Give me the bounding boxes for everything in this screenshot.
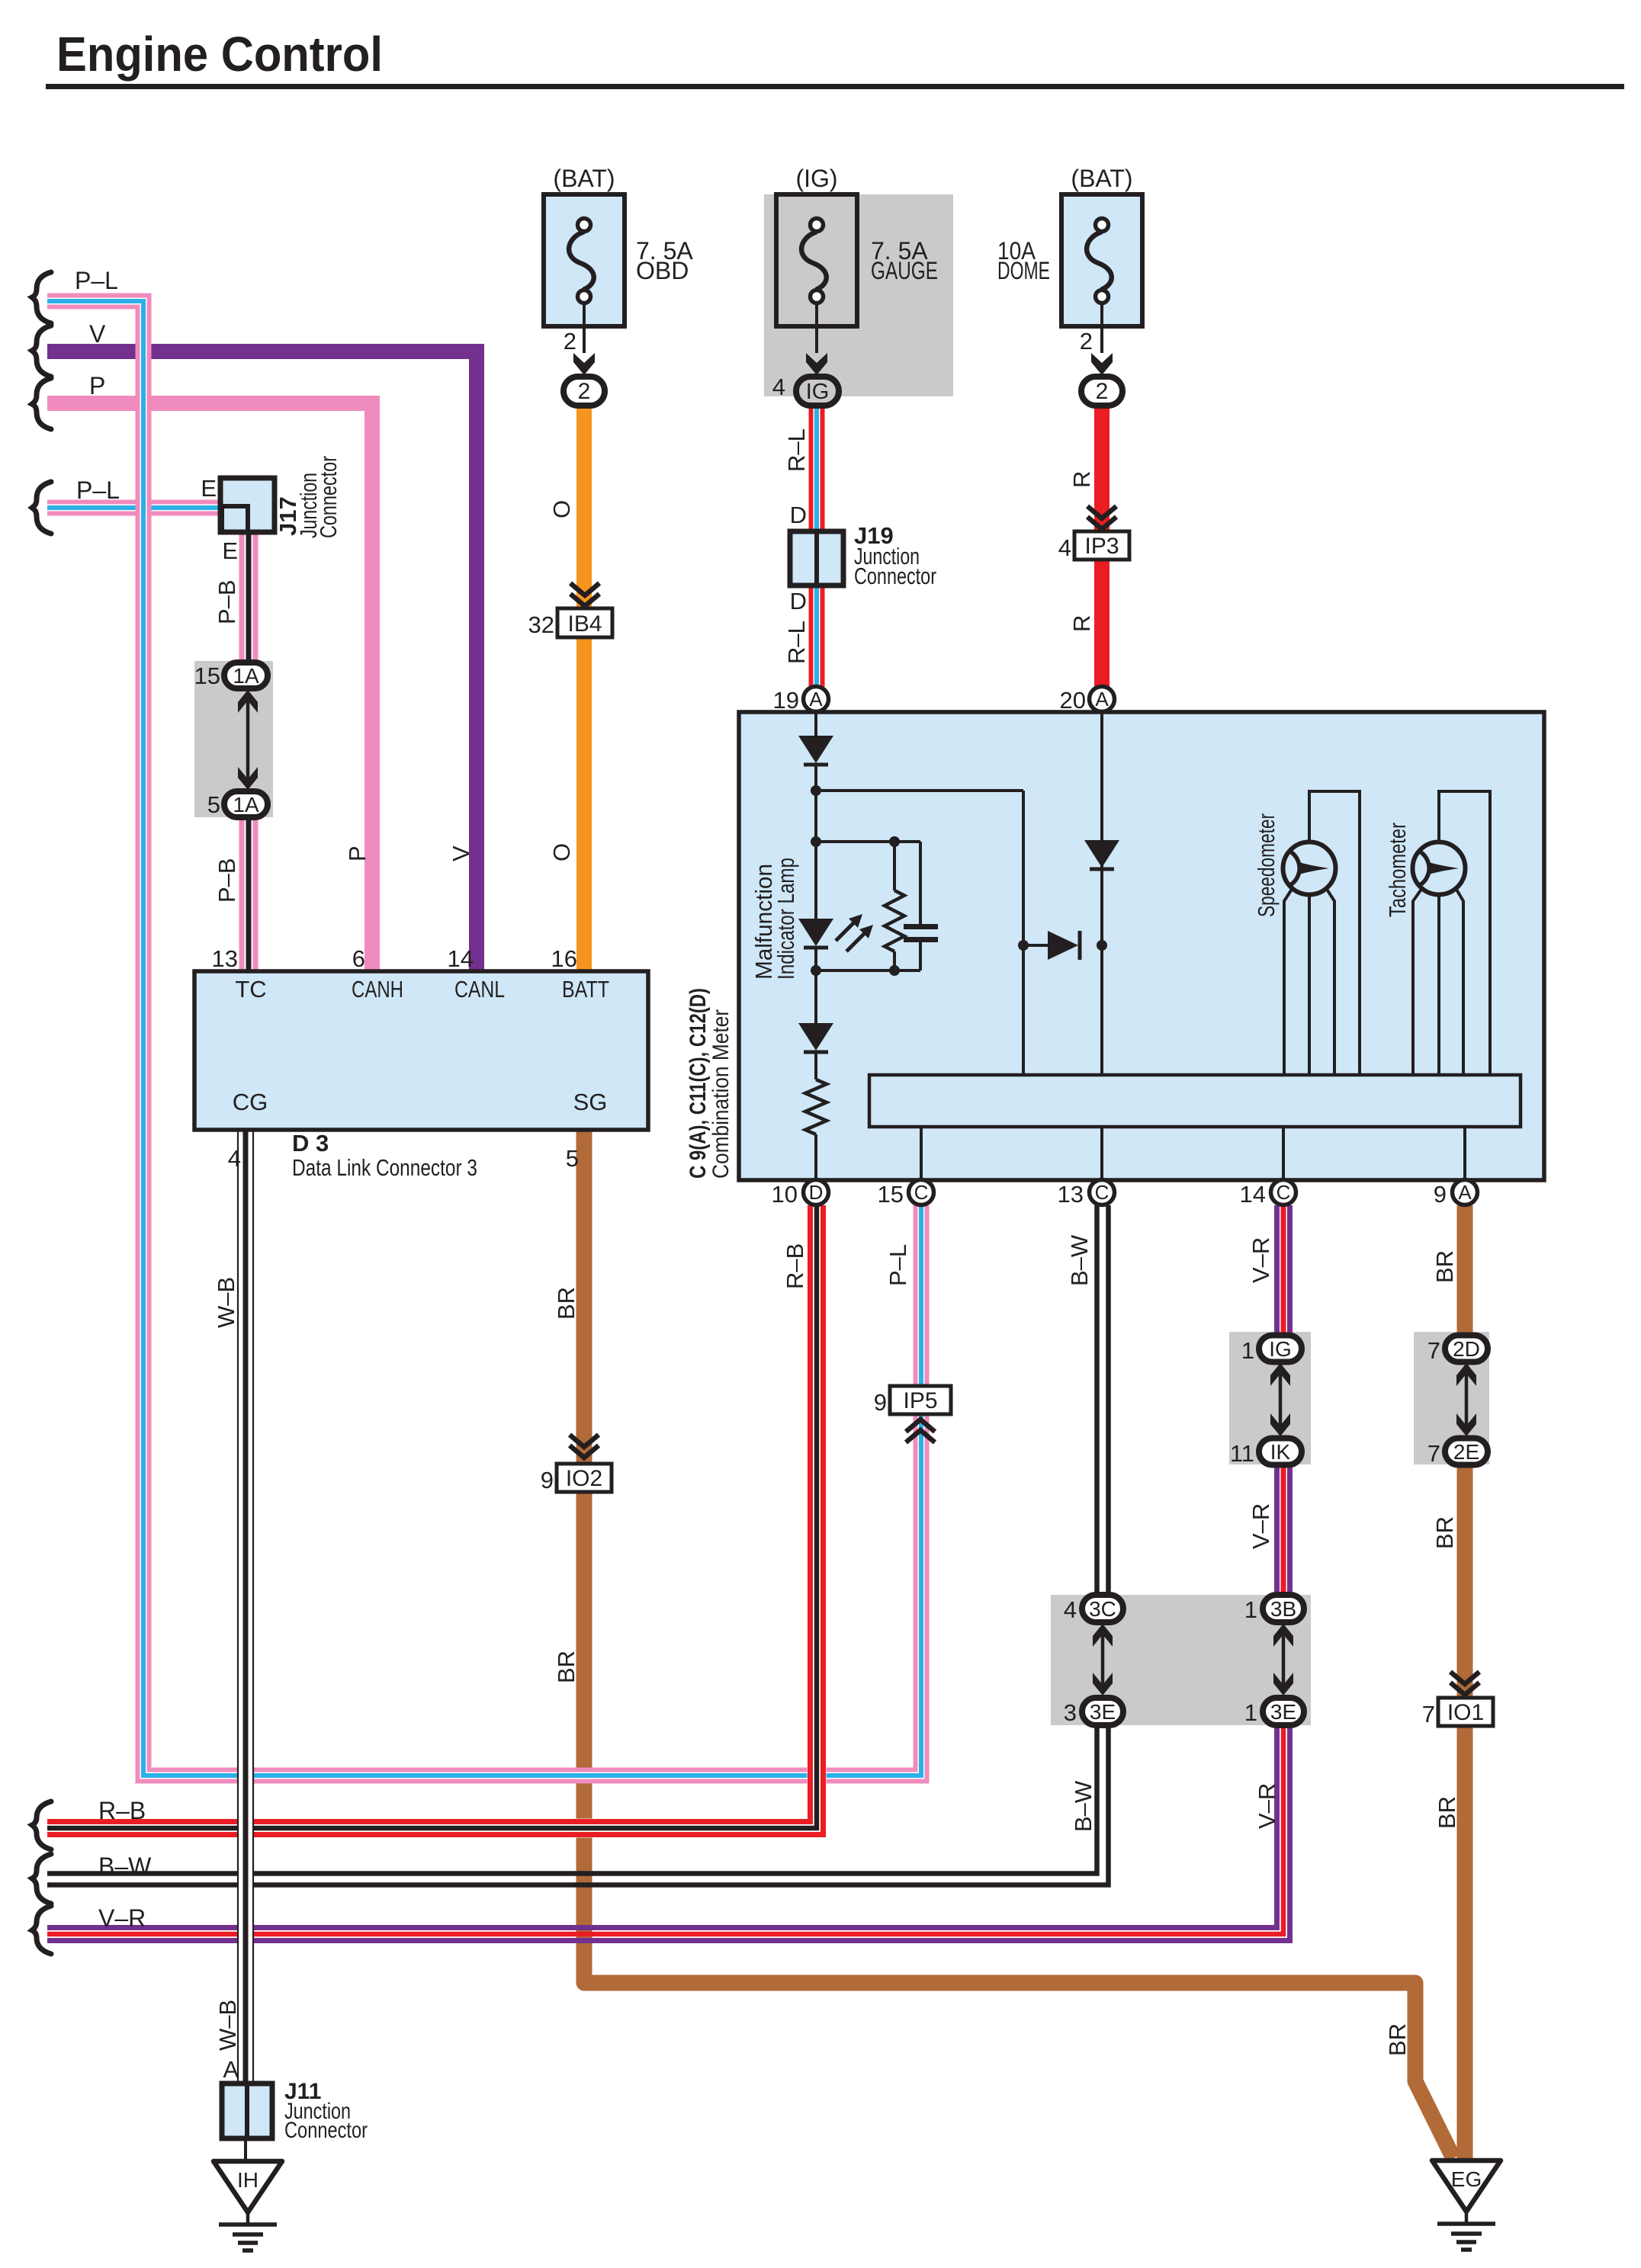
svg-text:1: 1 [1241, 1337, 1254, 1364]
svg-text:OBD: OBD [636, 257, 689, 284]
svg-text:Speedometer: Speedometer [1253, 813, 1280, 917]
svg-text:2: 2 [578, 379, 591, 404]
svg-text:5: 5 [566, 1145, 579, 1172]
svg-text:IP3: IP3 [1084, 534, 1119, 559]
svg-text:B–W: B–W [1066, 1234, 1093, 1286]
svg-text:V: V [448, 845, 474, 861]
svg-text:1: 1 [1244, 1699, 1257, 1726]
svg-text:Combination Meter: Combination Meter [708, 1009, 734, 1179]
svg-text:Engine Control: Engine Control [56, 27, 383, 82]
svg-text:BR: BR [1384, 2023, 1411, 2056]
svg-text:R: R [1068, 615, 1095, 632]
svg-text:P–L: P–L [885, 1244, 911, 1286]
svg-text:IG: IG [1269, 1337, 1292, 1361]
svg-text:A: A [809, 688, 823, 711]
svg-text:D: D [790, 502, 807, 528]
svg-text:C 9(A), C11(C), C12(D): C 9(A), C11(C), C12(D) [686, 988, 711, 1179]
svg-text:3C: 3C [1089, 1597, 1116, 1621]
svg-text:BR: BR [1431, 1250, 1458, 1283]
svg-text:CANL: CANL [454, 976, 505, 1002]
svg-text:C: C [914, 1181, 929, 1204]
svg-text:4: 4 [772, 374, 785, 400]
svg-text:2: 2 [564, 328, 576, 354]
svg-text:IO2: IO2 [566, 1466, 602, 1491]
svg-text:14: 14 [448, 945, 474, 972]
svg-text:SG: SG [573, 1089, 608, 1115]
svg-text:3E: 3E [1270, 1700, 1296, 1724]
svg-text:16: 16 [551, 945, 577, 972]
svg-text:V–R: V–R [1248, 1503, 1274, 1549]
svg-text:Data Link Connector 3: Data Link Connector 3 [292, 1154, 477, 1181]
svg-text:O: O [548, 843, 575, 861]
svg-text:7: 7 [1422, 1701, 1435, 1727]
svg-text:1: 1 [1244, 1596, 1257, 1623]
svg-text:B–W: B–W [98, 1853, 152, 1880]
svg-text:BATT: BATT [562, 976, 609, 1002]
svg-text:V–R: V–R [1248, 1237, 1274, 1283]
svg-text:20: 20 [1060, 687, 1086, 714]
svg-text:Connector: Connector [315, 456, 342, 538]
svg-text:TC: TC [235, 976, 266, 1002]
svg-text:Indicator Lamp: Indicator Lamp [772, 858, 799, 980]
svg-text:5: 5 [207, 791, 220, 818]
svg-text:IB4: IB4 [567, 611, 602, 637]
svg-text:CG: CG [233, 1089, 268, 1115]
svg-text:EG: EG [1451, 2167, 1482, 2191]
svg-text:1A: 1A [233, 793, 259, 816]
svg-text:1A: 1A [233, 664, 259, 688]
svg-text:10: 10 [772, 1181, 798, 1208]
svg-text:7: 7 [1427, 1440, 1440, 1467]
svg-text:IH: IH [237, 2168, 259, 2192]
svg-text:W–B: W–B [213, 1277, 239, 1328]
svg-text:4: 4 [1064, 1596, 1077, 1623]
svg-text:11: 11 [1230, 1440, 1254, 1467]
svg-text:R–B: R–B [98, 1797, 146, 1824]
svg-text:3: 3 [1064, 1699, 1077, 1726]
svg-text:C: C [1095, 1181, 1110, 1204]
svg-text:BR: BR [553, 1650, 580, 1683]
svg-text:D: D [809, 1181, 824, 1204]
svg-text:P–B: P–B [214, 858, 240, 903]
svg-text:Tachometer: Tachometer [1384, 823, 1411, 917]
svg-text:3B: 3B [1270, 1597, 1296, 1621]
svg-text:W–B: W–B [214, 2000, 241, 2051]
svg-text:P–B: P–B [214, 579, 240, 624]
svg-text:R–L: R–L [783, 428, 810, 472]
svg-text:A: A [1458, 1181, 1472, 1204]
svg-text:P: P [344, 845, 371, 861]
svg-text:V–R: V–R [1254, 1783, 1280, 1829]
svg-text:R–B: R–B [782, 1243, 808, 1289]
svg-text:O: O [548, 500, 575, 518]
svg-text:(BAT): (BAT) [1071, 165, 1132, 192]
svg-text:19: 19 [773, 687, 799, 714]
svg-text:A: A [223, 2056, 239, 2083]
svg-text:B–W: B–W [1070, 1780, 1097, 1832]
svg-text:(BAT): (BAT) [553, 165, 615, 192]
svg-text:A: A [1095, 688, 1109, 711]
svg-text:P–L: P–L [76, 476, 120, 504]
svg-text:(IG): (IG) [795, 165, 837, 192]
svg-text:15: 15 [194, 662, 220, 689]
svg-text:D: D [790, 588, 807, 614]
svg-text:2: 2 [1080, 328, 1093, 354]
svg-text:14: 14 [1240, 1181, 1266, 1208]
svg-text:P: P [89, 372, 105, 399]
svg-text:9: 9 [874, 1389, 887, 1416]
svg-text:E: E [201, 475, 217, 502]
svg-text:4: 4 [228, 1145, 241, 1172]
svg-text:R: R [1068, 471, 1095, 488]
svg-text:BR: BR [1434, 1796, 1460, 1829]
svg-text:Connector: Connector [284, 2118, 368, 2143]
svg-text:13: 13 [1058, 1181, 1084, 1208]
svg-text:2: 2 [1096, 379, 1109, 404]
svg-text:BR: BR [1431, 1516, 1458, 1549]
svg-text:CANH: CANH [352, 976, 403, 1002]
svg-text:IG: IG [806, 380, 830, 404]
svg-text:C: C [1277, 1181, 1291, 1204]
svg-text:IK: IK [1270, 1440, 1291, 1464]
svg-text:D 3: D 3 [292, 1130, 329, 1156]
svg-text:GAUGE: GAUGE [871, 257, 938, 284]
svg-text:V: V [89, 320, 106, 348]
svg-text:2D: 2D [1453, 1337, 1480, 1361]
svg-text:7: 7 [1427, 1337, 1440, 1364]
svg-text:Connector: Connector [854, 563, 936, 589]
svg-text:IO1: IO1 [1447, 1700, 1484, 1725]
svg-text:4: 4 [1058, 534, 1071, 561]
svg-text:3E: 3E [1090, 1700, 1116, 1724]
svg-text:DOME: DOME [997, 257, 1050, 284]
svg-text:V–R: V–R [98, 1904, 146, 1932]
svg-text:6: 6 [352, 945, 365, 972]
svg-text:9: 9 [1434, 1181, 1447, 1208]
svg-text:R–L: R–L [783, 621, 810, 664]
svg-text:9: 9 [541, 1467, 554, 1493]
svg-text:2E: 2E [1453, 1440, 1479, 1464]
svg-text:E: E [222, 537, 238, 564]
svg-text:BR: BR [553, 1287, 580, 1320]
svg-text:15: 15 [878, 1181, 904, 1208]
svg-text:P–L: P–L [75, 267, 118, 294]
svg-text:13: 13 [212, 945, 238, 972]
svg-text:32: 32 [528, 611, 554, 638]
svg-text:IP5: IP5 [903, 1388, 937, 1413]
